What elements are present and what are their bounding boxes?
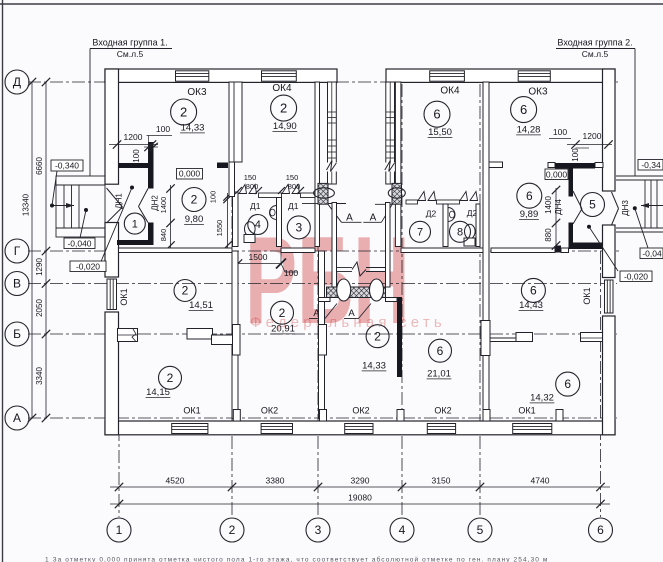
wall axis5 (full height) (483, 82, 489, 419)
axis line V (horizontal) (28, 283, 617, 285)
stair rungs left (328, 111, 337, 113)
svg-text:-0,04: -0,04 (642, 248, 662, 258)
axis circle G (5, 239, 29, 263)
svg-text:2: 2 (191, 193, 198, 207)
svg-text:8: 8 (457, 227, 463, 239)
axis circle 4 (390, 518, 414, 542)
svg-text:Д1: Д1 (288, 201, 299, 211)
wall axis3 upper (315, 82, 320, 247)
svg-text:100: 100 (209, 191, 218, 204)
svg-text:-0,020: -0,020 (624, 271, 648, 281)
svg-text:ОК2: ОК2 (434, 406, 451, 416)
leader dot DN3 to -0,04 (633, 206, 637, 210)
corridor wall G: black pier (555, 246, 561, 253)
svg-text:6660: 6660 (35, 157, 44, 175)
svg-text:Д: Д (13, 75, 21, 89)
svg-text:1200: 1200 (124, 132, 143, 142)
pilaster on axis3 wall (319, 325, 327, 356)
room circle 2 (14,33 lower) (366, 325, 389, 348)
svg-text:2: 2 (229, 523, 236, 537)
WC bowl in toilet 4 (245, 222, 256, 236)
right porch top wall (616, 175, 663, 177)
tambour bottom black wall (117, 240, 152, 245)
washbasin in toilet 8 (448, 208, 455, 222)
door D2 flag (toilet 7) (418, 192, 426, 201)
right porch steps (644, 180, 646, 228)
wall between toilets 7 and 8 (443, 204, 448, 247)
room circle 6 (OK3 right) (511, 97, 537, 123)
axis line 4 (vertical) (401, 84, 403, 517)
svg-text:3290: 3290 (351, 476, 370, 486)
svg-text:150: 150 (286, 173, 299, 182)
svg-text:9,89: 9,89 (520, 209, 539, 220)
svg-text:Д2: Д2 (426, 209, 437, 219)
svg-text:4520: 4520 (166, 476, 185, 486)
svg-text:20,91: 20,91 (271, 324, 295, 335)
stair wall left (section) (328, 82, 337, 184)
svg-text:1: 1 (132, 218, 138, 230)
window OK1 (bottom wall, left) (172, 424, 208, 434)
axis circle V (5, 272, 29, 296)
svg-text:ОК1: ОК1 (119, 288, 129, 305)
elevation mark -0,340 (51, 160, 83, 171)
room circle 6 (21,01) (429, 339, 452, 362)
svg-text:14,90: 14,90 (273, 121, 297, 132)
wall: hall right / toilet4 left (233, 192, 239, 247)
svg-text:2: 2 (279, 306, 286, 320)
svg-text:-0,020: -0,020 (76, 261, 100, 271)
stair wall right (section) (386, 82, 395, 184)
window OK3 (top wall, left) (176, 71, 209, 81)
svg-text:6: 6 (520, 102, 527, 117)
dimension 1550 vertical (227, 193, 229, 249)
svg-text:1400: 1400 (544, 196, 553, 214)
svg-text:ДН1: ДН1 (115, 193, 124, 209)
wall axis4 lower black pier (397, 297, 402, 377)
right exterior wall (middle) (603, 225, 616, 278)
room circle 2 (20,91) (271, 301, 294, 324)
svg-text:ОК4: ОК4 (440, 86, 460, 97)
room circle 2 (OK4) (271, 95, 297, 121)
svg-text:1200: 1200 (583, 131, 602, 141)
svg-text:840: 840 (159, 229, 168, 242)
leader dot room5 to -0,020 (587, 225, 591, 229)
axis circle 2 (220, 518, 244, 542)
svg-text:14,32: 14,32 (530, 393, 554, 404)
axis circle A (5, 406, 29, 430)
partition wall at tambour (upper) (148, 142, 154, 189)
svg-text:ОК3: ОК3 (528, 87, 548, 98)
svg-text:2: 2 (167, 371, 174, 385)
svg-text:А: А (346, 213, 353, 224)
room circle 8 (450, 221, 471, 242)
wall on axis B: left segment 1 (118, 329, 138, 342)
hatched lintel upper-right with ellipse (392, 183, 402, 204)
toilet block top wall segments (259, 193, 282, 198)
wall axis3 lower (319, 251, 325, 419)
svg-text:3340: 3340 (35, 367, 44, 385)
svg-text:14,15: 14,15 (146, 387, 170, 398)
svg-text:0,000: 0,000 (179, 169, 201, 179)
pilaster on axis2 wall (233, 325, 241, 356)
svg-text:ОК2: ОК2 (352, 406, 369, 416)
wall axis2 upper lower part (229, 162, 235, 197)
elevation mark 0,000 left (177, 169, 203, 180)
svg-text:2050: 2050 (35, 299, 44, 317)
svg-text:100: 100 (284, 268, 298, 278)
svg-text:100: 100 (156, 124, 170, 134)
svg-text:ОК2: ОК2 (261, 406, 278, 416)
svg-text:А: А (370, 213, 377, 224)
svg-text:100: 100 (132, 149, 141, 163)
landing edge lines under lintels (302, 203, 318, 205)
svg-text:6: 6 (597, 523, 604, 537)
wall axis2 lower (232, 251, 238, 419)
axis line A (horizontal) (28, 417, 617, 419)
svg-text:ОК1: ОК1 (582, 287, 592, 304)
svg-text:13340: 13340 (22, 193, 31, 216)
svg-text:1500: 1500 (249, 252, 268, 262)
svg-text:14,33: 14,33 (362, 361, 386, 372)
border frame top line (0, 3, 663, 5)
axis circle D (5, 70, 29, 94)
svg-text:1550: 1550 (215, 220, 224, 237)
bottom dimension chain segments (110, 486, 610, 488)
svg-text:ДН4: ДН4 (554, 199, 563, 215)
svg-text:4: 4 (399, 523, 406, 537)
door DN3 swing (612, 192, 619, 209)
left exterior wall (lower) (105, 312, 119, 435)
window OK1 (left wall) (107, 279, 117, 310)
section callout A lower-left (309, 318, 325, 320)
svg-text:4740: 4740 (531, 476, 550, 486)
svg-text:-0,34: -0,34 (641, 160, 661, 170)
room circle 5 (581, 193, 605, 217)
svg-text:100: 100 (571, 148, 580, 162)
svg-text:19080: 19080 (348, 493, 372, 503)
svg-text:2: 2 (182, 284, 189, 298)
axis line 2 (vertical) (231, 84, 233, 517)
window OK3 (top wall, right) (518, 71, 550, 81)
section strip lower walls (332, 203, 337, 288)
section callout A upper-left (328, 204, 342, 222)
svg-text:2: 2 (280, 101, 287, 116)
svg-text:ОК3: ОК3 (187, 87, 207, 98)
axis circle 6 (589, 518, 613, 542)
wall axis4 upper (395, 82, 401, 247)
section callout A upper-right (381, 204, 392, 222)
stair rungs right (386, 111, 395, 113)
leader dot to -0,040 (84, 208, 88, 212)
svg-text:Г: Г (14, 244, 21, 258)
wall on axis B: left segment 2 offset step (212, 335, 233, 345)
wall pier under room OK3 (217, 163, 228, 169)
corridor wall G: left segment (119, 248, 233, 253)
window OK1 (bottom wall, right) (513, 424, 552, 434)
svg-text:14,43: 14,43 (519, 300, 543, 311)
window OK1 (right wall) (605, 280, 614, 313)
svg-text:А: А (13, 411, 21, 425)
room circle 7 (410, 221, 431, 242)
elevation mark 0,000 right (545, 169, 568, 180)
right porch entry arrow (641, 205, 663, 207)
corridor wall G: segment 4 (491, 248, 555, 253)
axis line B (horizontal) (28, 333, 617, 335)
room circle 2 hall (182, 188, 206, 212)
svg-text:-0,340: -0,340 (55, 160, 79, 170)
svg-text:См.л.5: См.л.5 (582, 49, 609, 59)
window OK2 (bottom wall) (261, 424, 292, 434)
svg-text:1400: 1400 (159, 197, 168, 214)
svg-text:7: 7 (417, 227, 423, 239)
wall on axis B: left segment 2 (187, 329, 213, 340)
axis line D (horizontal) (28, 81, 618, 83)
axis line G (horizontal) (28, 250, 620, 252)
room circle 2 (OK3) (171, 99, 197, 125)
break zigzag left stair wall (327, 163, 338, 172)
window OK2 (bottom wall, right) (427, 424, 455, 434)
left porch outline (56, 176, 105, 237)
hatched lintel upper-left with ellipse (318, 183, 328, 204)
wall: room OK3 bottom, left segment (119, 163, 149, 168)
door DN1 swing in left wall (107, 188, 123, 207)
window OK2 (bottom wall, middle) (345, 424, 373, 434)
section callout A lower-right (344, 318, 359, 320)
hatched bottom band with ellipses (327, 287, 386, 298)
svg-text:Д1: Д1 (250, 201, 261, 211)
elevation mark -0,34 (638, 160, 663, 171)
door DN4 swing (573, 191, 582, 209)
right exterior wall (upper) (603, 69, 616, 191)
svg-text:6: 6 (564, 377, 571, 391)
elevation mark -0,020 left (70, 261, 106, 272)
svg-text:-0,040: -0,040 (67, 238, 91, 248)
svg-text:В: В (13, 277, 21, 291)
svg-text:2: 2 (374, 329, 381, 343)
corridor wall G: stub to vestibule (561, 248, 569, 253)
right exterior wall (lower) (603, 316, 616, 435)
svg-text:1290: 1290 (35, 258, 44, 276)
svg-text:1 За отметку 0,000 принята о: 1 За отметку 0,000 принята отметка чисто… (45, 556, 548, 562)
left porch entry arrow (52, 205, 74, 207)
wall axis2 upper (between OK3 and OK4) (229, 82, 242, 162)
svg-text:3150: 3150 (432, 476, 451, 486)
svg-text:150: 150 (244, 173, 257, 182)
svg-text:ОК1: ОК1 (518, 406, 535, 416)
svg-text:ОК1: ОК1 (183, 406, 200, 416)
axis circle 1 (107, 518, 131, 542)
axis circle 5 (468, 518, 492, 542)
svg-text:6: 6 (437, 344, 444, 358)
wall on axis B: right segment 1 (490, 338, 531, 342)
svg-text:1: 1 (116, 523, 123, 537)
svg-text:3: 3 (315, 523, 322, 537)
partition wall at tambour (lower) (148, 223, 154, 246)
watermark RBN (245, 211, 410, 350)
svg-text:Входная группа 1.: Входная группа 1. (92, 38, 167, 48)
room circle 6 (14,43) (521, 278, 545, 302)
svg-text:6: 6 (530, 283, 537, 297)
top exterior wall band (right part) (386, 69, 615, 82)
window OK4 (top wall, left) (262, 71, 297, 81)
svg-text:0,000: 0,000 (546, 169, 568, 179)
svg-text:800: 800 (246, 182, 259, 191)
svg-text:15,50: 15,50 (428, 127, 452, 138)
washbasin in toilet 4 (270, 206, 277, 220)
window OK4 (top wall, right) (430, 71, 465, 81)
svg-text:Б: Б (13, 327, 21, 341)
room circle 6 (OK4 right) (424, 101, 450, 127)
left dimension chain segments (45, 82, 47, 418)
svg-text:9,80: 9,80 (185, 214, 204, 225)
svg-text:См.л.5: См.л.5 (117, 49, 144, 59)
bottom exterior wall band (105, 421, 615, 435)
svg-text:6: 6 (433, 107, 440, 122)
svg-text:800: 800 (288, 182, 301, 191)
elevation mark -0,04 (640, 248, 663, 259)
right porch bottom wall (616, 227, 663, 229)
svg-text:А: А (348, 308, 355, 319)
pier stub on axis5 wall (room 14,28) (489, 162, 503, 168)
toilet 7-8 right wall (476, 204, 480, 247)
svg-text:14,51: 14,51 (189, 300, 213, 311)
vestibule left wall upper black (569, 166, 574, 197)
svg-text:3380: 3380 (266, 476, 285, 486)
axis line 1 (vertical) (118, 428, 120, 517)
room circle 6 (14,32) (556, 372, 580, 396)
left dimension chain total 13340 (31, 82, 33, 418)
room circle 4 (248, 215, 268, 235)
wall on axis B: right segment 2 (581, 333, 603, 342)
dimension 1400/880 (vestibule) (555, 188, 557, 250)
door D1 flag (toilet 3) (282, 185, 290, 194)
corridor wall G: segment 2 (281, 248, 315, 253)
left exterior wall (middle) (105, 223, 119, 278)
vestibule top wall (595, 163, 603, 168)
axis line 5 (vertical) (479, 84, 481, 517)
svg-text:4: 4 (255, 219, 261, 231)
wall on axis B: right pier (516, 333, 533, 342)
section floor line with break (337, 267, 353, 269)
room circle 2 (14,51) (174, 280, 196, 302)
svg-text:21,01: 21,01 (427, 369, 451, 380)
axis line 6 (vertical) (600, 251, 602, 517)
svg-text:Входная группа 2.: Входная группа 2. (557, 38, 632, 48)
svg-text:3: 3 (295, 220, 302, 234)
border frame left line (2, 0, 4, 562)
break zigzag right stair wall (385, 163, 396, 172)
door D2 flag (toilet 8) (460, 192, 468, 201)
svg-text:100: 100 (553, 127, 567, 137)
svg-text:2: 2 (180, 104, 187, 119)
room 14,28 bottom wall segments (548, 163, 555, 168)
svg-text:ДН3: ДН3 (621, 200, 630, 216)
room circle 3 (287, 216, 310, 239)
left exterior wall (upper) (105, 69, 119, 184)
svg-text:5: 5 (477, 523, 484, 537)
axis circle B (5, 322, 29, 346)
room 14,33 top wall stubs (319, 298, 331, 302)
wall between toilets 4 and 3 (277, 198, 282, 247)
door DN2 leaf flag (139, 189, 149, 207)
corridor wall G: segment 3 (right of section) (401, 248, 483, 253)
room circle 2 (14,15) (159, 366, 182, 389)
vestibule left wall lower black (569, 223, 574, 249)
bottom wall inner piers (233, 410, 240, 422)
left porch steps (63, 185, 65, 228)
pilaster on axis5 wall at B (481, 321, 490, 356)
svg-text:14,28: 14,28 (517, 125, 541, 136)
svg-text:ОК4: ОК4 (272, 83, 292, 94)
elevation mark -0,020 right (620, 271, 652, 282)
WC bowl in toilet 8 (465, 224, 476, 238)
svg-text:5: 5 (589, 198, 596, 212)
svg-text:14,33: 14,33 (181, 123, 205, 134)
room circle 6 hall right (517, 183, 542, 208)
vestibule bottom black wall (569, 243, 603, 250)
elevation mark -0,040 (64, 238, 95, 249)
toilet 7-8 top wall segments (406, 200, 418, 204)
bottom dimension chain total 19080 (110, 503, 610, 505)
axis line 3 (vertical) (317, 84, 319, 517)
dimension 1400 (door DN2) (170, 185, 172, 248)
svg-text:880: 880 (544, 228, 553, 242)
axis circle 3 (306, 518, 330, 542)
top exterior wall band (left part) (105, 69, 337, 82)
room circle 1 (124, 213, 145, 234)
svg-text:6: 6 (526, 189, 533, 203)
door D1 flag (toilet 4) (239, 185, 247, 194)
